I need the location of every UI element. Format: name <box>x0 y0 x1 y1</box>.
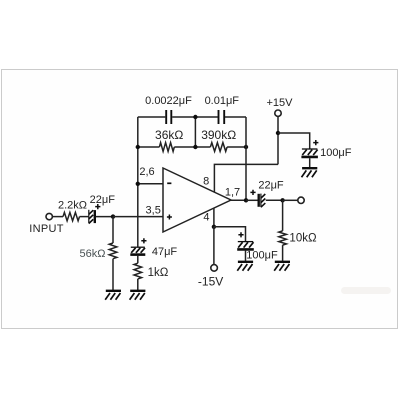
svg-text:47μF: 47μF <box>152 246 178 258</box>
faint watermark smudge <box>341 287 391 294</box>
svg-text:3,5: 3,5 <box>146 205 161 217</box>
ground under top 100uF <box>302 167 317 169</box>
resistor R 390kOhm <box>210 143 227 152</box>
wire R10k to ground <box>282 245 284 262</box>
wire R2.2k to C22uF <box>80 216 89 218</box>
wire pin4 rail right to bypass cap C 100uF bottom <box>214 227 246 241</box>
svg-text:100μF: 100μF <box>320 147 352 159</box>
op-amp minus sign <box>167 182 171 184</box>
capacitor C 22uF input, hatched negative plate <box>88 210 90 224</box>
capacitor C 0.0022uF plates <box>165 110 167 124</box>
junction dot pin 4 rail <box>212 225 216 229</box>
svg-text:0.0022μF: 0.0022μF <box>145 95 192 107</box>
svg-text:22μF: 22μF <box>258 179 284 191</box>
svg-text:+15V: +15V <box>267 97 294 109</box>
resistor R 36kOhm <box>159 143 174 152</box>
wire node A to op-amp pin 3,5 (crosses feedback line) <box>113 216 163 218</box>
junction dot right resistor row <box>244 145 248 149</box>
input terminal J1 <box>46 213 52 219</box>
+15V vertical wire <box>277 116 279 164</box>
svg-text:56kΩ: 56kΩ <box>80 248 106 260</box>
output terminal J2 <box>298 197 304 203</box>
resistor R 1kOhm <box>134 263 142 279</box>
junction dot middle resistor row <box>193 145 197 149</box>
wire output node to C 22uF out <box>246 199 258 201</box>
svg-text:100μF: 100μF <box>246 250 278 262</box>
wire R1k to ground <box>137 279 139 291</box>
ground under bottom 100uF <box>238 261 253 263</box>
+15V terminal <box>275 110 281 116</box>
svg-text:10kΩ: 10kΩ <box>289 232 317 244</box>
output node junction dot <box>244 198 248 202</box>
plus sign of top 100uF <box>313 140 318 145</box>
junction dot left resistor row <box>136 145 140 149</box>
op-amp U1 triangle <box>163 168 231 232</box>
junction dot +15V rail <box>276 131 280 135</box>
photo frame border <box>2 70 398 329</box>
plus sign of input 22uF <box>95 204 100 209</box>
svg-text:1kΩ: 1kΩ <box>148 267 169 279</box>
resistor 2.2k&#937; <box>63 212 80 220</box>
wire 47uF to R 1k <box>137 256 139 263</box>
junction dot at 10k tee <box>280 198 284 202</box>
junction dot at pin 2,6 tee <box>136 182 140 186</box>
svg-text:8: 8 <box>203 176 209 188</box>
capacitor C 100uF top-right, solid plate <box>301 156 318 159</box>
node A junction dot <box>111 214 115 218</box>
svg-text:390kΩ: 390kΩ <box>201 128 236 142</box>
wire node A down to R 56k <box>112 217 114 243</box>
wire op-amp output to output node <box>229 199 246 201</box>
resistor R 56kOhm <box>109 243 117 259</box>
capacitor C 100uF top-right, hatched plate <box>302 148 318 150</box>
resistor R 10kOhm <box>279 231 287 245</box>
svg-text:4: 4 <box>203 212 209 224</box>
wire op-amp pin 4 down <box>213 208 215 227</box>
feedback left vertical wire <box>137 117 139 247</box>
svg-text:36kΩ: 36kΩ <box>155 128 183 142</box>
wire input terminal to R 2.2k <box>53 216 63 218</box>
-15V terminal <box>211 265 218 272</box>
wire feedback to op-amp pin 2,6 <box>138 183 163 185</box>
wire C22uF out to output junction <box>266 199 283 201</box>
wire to output terminal <box>283 199 298 201</box>
svg-text:-15V: -15V <box>198 275 223 289</box>
capacitor C 47uF, hatched plate <box>131 246 145 248</box>
svg-text:2.2kΩ: 2.2kΩ <box>58 200 87 212</box>
wire C22uF to node A <box>96 216 113 218</box>
svg-text:1,7: 1,7 <box>225 186 240 198</box>
ground under 1k <box>130 290 145 292</box>
capacitor C 47uF, solid plate <box>130 253 145 256</box>
ground under 56k <box>106 290 121 292</box>
feedback middle vertical wire <box>194 117 196 147</box>
svg-text:INPUT: INPUT <box>29 223 64 235</box>
wire R56k to ground <box>112 259 114 291</box>
wire 10k tee down to R 10k <box>282 200 284 231</box>
wire op-amp pin 8 up and right to +15V rail <box>214 164 278 192</box>
wire pin4 junction down to -15V terminal <box>213 227 215 265</box>
capacitor C 22uF output, hatched negative plate <box>260 194 262 208</box>
plus sign of 47uF <box>141 238 146 243</box>
plus sign of bottom 100uF <box>238 232 243 237</box>
svg-text:0.01μF: 0.01μF <box>205 95 240 107</box>
capacitor C 22uF output, solid positive plate <box>258 194 260 207</box>
plus sign of output 22uF <box>250 190 255 195</box>
feedback resistor row wires <box>138 146 246 148</box>
junction dot middle cap row <box>193 115 197 119</box>
ground under 10k <box>275 261 290 263</box>
feedback top cap row wire left segment <box>138 116 246 118</box>
wire bottom 100uF to ground <box>245 251 247 262</box>
capacitor C 22uF input, solid positive plate <box>94 210 96 223</box>
capacitor C 0.01uF plates <box>218 110 220 124</box>
svg-text:2,6: 2,6 <box>139 166 154 178</box>
capacitor C 100uF bottom, solid plate <box>237 248 254 251</box>
capacitor C 100uF bottom, hatched plate <box>238 241 253 243</box>
wire 100uF to ground <box>309 158 311 168</box>
wire +15V rail to bypass cap C 100uF <box>278 133 310 149</box>
op-amp plus sign <box>167 215 172 220</box>
svg-text:22μF: 22μF <box>90 194 116 206</box>
feedback right vertical wire down to output node <box>245 117 247 200</box>
